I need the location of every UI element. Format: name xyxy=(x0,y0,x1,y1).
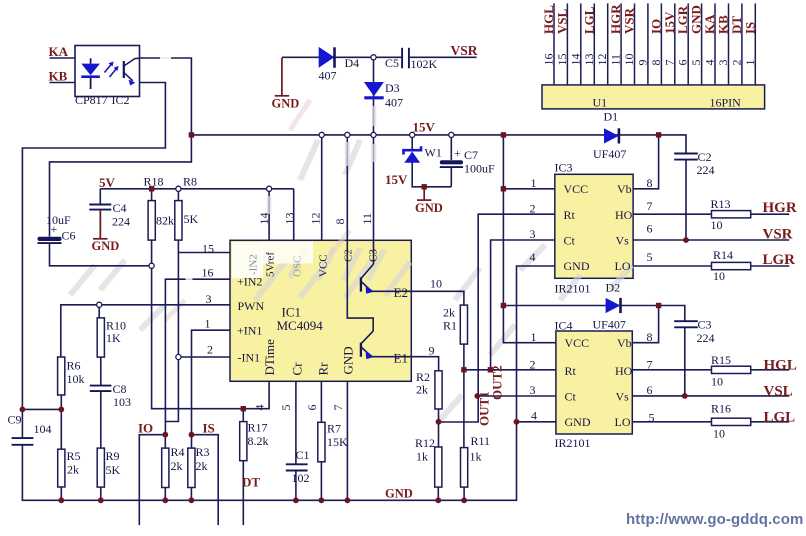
svg-text:Vs: Vs xyxy=(616,234,630,248)
svg-text:16: 16 xyxy=(542,54,556,66)
svg-text:UF407: UF407 xyxy=(593,147,626,161)
svg-text:102K: 102K xyxy=(411,57,438,71)
svg-text:3: 3 xyxy=(530,383,536,397)
svg-text:4: 4 xyxy=(703,60,717,66)
svg-text:13: 13 xyxy=(582,54,596,66)
svg-text:IS: IS xyxy=(742,22,757,34)
svg-text:IC2: IC2 xyxy=(112,93,130,107)
svg-text:Ct: Ct xyxy=(564,234,576,248)
svg-text:R4: R4 xyxy=(171,445,185,459)
svg-text:GND: GND xyxy=(415,201,443,215)
svg-text:2k: 2k xyxy=(196,459,208,473)
svg-text:D4: D4 xyxy=(345,56,360,70)
svg-text:Vb: Vb xyxy=(617,336,632,350)
svg-text:100uF: 100uF xyxy=(464,162,495,176)
svg-text:5: 5 xyxy=(279,405,293,411)
svg-text:2: 2 xyxy=(729,60,743,66)
svg-text:D2: D2 xyxy=(606,281,621,295)
svg-text:5K: 5K xyxy=(106,463,121,477)
svg-text:1: 1 xyxy=(531,330,537,344)
svg-text:C4: C4 xyxy=(113,201,127,215)
svg-text:VSR: VSR xyxy=(763,227,793,243)
svg-text:8.2k: 8.2k xyxy=(248,434,269,448)
svg-text:1k: 1k xyxy=(416,450,428,464)
svg-text:VSR: VSR xyxy=(451,43,478,58)
svg-text:HGL: HGL xyxy=(764,358,797,374)
svg-text:C2: C2 xyxy=(343,249,355,262)
svg-text:2k: 2k xyxy=(416,383,428,397)
svg-text:R3: R3 xyxy=(196,445,210,459)
svg-text:14: 14 xyxy=(257,213,271,225)
svg-text:5: 5 xyxy=(689,60,703,66)
svg-text:R7: R7 xyxy=(327,422,341,436)
svg-text:VSL: VSL xyxy=(554,8,569,34)
svg-text:1k: 1k xyxy=(470,450,482,464)
svg-text:+: + xyxy=(454,146,461,160)
svg-text:+IN2: +IN2 xyxy=(237,275,262,289)
svg-text:C3: C3 xyxy=(368,249,380,262)
svg-text:7: 7 xyxy=(662,60,676,66)
svg-text:6: 6 xyxy=(647,383,653,397)
svg-text:407: 407 xyxy=(385,96,403,110)
svg-text:2: 2 xyxy=(530,202,536,216)
svg-text:OUT2: OUT2 xyxy=(490,365,505,400)
svg-text:224: 224 xyxy=(697,331,715,345)
svg-text:HO: HO xyxy=(615,208,633,222)
svg-text:IS: IS xyxy=(203,421,215,436)
svg-text:+: + xyxy=(51,222,58,236)
svg-text:1: 1 xyxy=(531,176,537,190)
svg-text:R12: R12 xyxy=(415,436,435,450)
svg-text:8: 8 xyxy=(647,176,653,190)
svg-text:11: 11 xyxy=(360,213,374,225)
svg-text:IO: IO xyxy=(138,421,153,436)
svg-text:82k: 82k xyxy=(156,214,174,228)
svg-text:R17: R17 xyxy=(248,421,268,435)
svg-text:5V: 5V xyxy=(99,175,116,190)
svg-text:W1: W1 xyxy=(425,146,442,160)
svg-text:10: 10 xyxy=(711,218,723,232)
svg-text:GND: GND xyxy=(341,346,356,374)
svg-text:R16: R16 xyxy=(711,402,731,416)
svg-text:8: 8 xyxy=(649,60,663,66)
svg-text:5: 5 xyxy=(647,250,653,264)
svg-text:UF407: UF407 xyxy=(593,318,626,332)
svg-text:VCC: VCC xyxy=(564,182,589,196)
svg-text:D1: D1 xyxy=(604,110,619,124)
svg-text:8: 8 xyxy=(333,219,347,225)
svg-text:OSC: OSC xyxy=(292,256,304,277)
svg-text:R15: R15 xyxy=(711,353,731,367)
svg-text:C3: C3 xyxy=(698,318,712,332)
svg-text:12: 12 xyxy=(309,213,323,225)
svg-text:Ct: Ct xyxy=(565,390,577,404)
svg-text:R11: R11 xyxy=(471,434,491,448)
svg-text:10: 10 xyxy=(713,427,725,441)
svg-text:IR2101: IR2101 xyxy=(555,282,591,296)
svg-text:10k: 10k xyxy=(67,372,85,386)
svg-text:1: 1 xyxy=(743,60,757,66)
svg-text:VSL: VSL xyxy=(764,384,793,400)
svg-text:GND: GND xyxy=(564,259,590,273)
svg-text:VSR: VSR xyxy=(622,7,637,34)
svg-text:C5: C5 xyxy=(385,56,399,70)
svg-text:HGR: HGR xyxy=(763,200,797,216)
svg-text:10: 10 xyxy=(430,277,442,291)
svg-text:1: 1 xyxy=(205,317,211,331)
svg-text:R1: R1 xyxy=(443,319,457,333)
svg-text:5Vref: 5Vref xyxy=(265,252,277,277)
svg-text:224: 224 xyxy=(697,163,715,177)
svg-text:5K: 5K xyxy=(184,212,199,226)
svg-text:GND: GND xyxy=(385,487,413,501)
svg-text:7: 7 xyxy=(647,199,653,213)
svg-text:104: 104 xyxy=(34,422,52,436)
svg-text:+IN1: +IN1 xyxy=(237,324,262,338)
svg-text:2: 2 xyxy=(207,343,213,357)
svg-text:PWN: PWN xyxy=(238,299,265,313)
svg-text:407: 407 xyxy=(319,69,337,83)
svg-text:LGL: LGL xyxy=(581,6,596,34)
svg-text:DT: DT xyxy=(242,475,260,490)
svg-text:GND: GND xyxy=(92,239,120,253)
svg-text:15V: 15V xyxy=(413,120,436,135)
svg-text:C7: C7 xyxy=(464,148,478,162)
svg-text:U1: U1 xyxy=(593,96,608,110)
svg-text:R14: R14 xyxy=(713,248,733,262)
svg-text:4: 4 xyxy=(530,250,536,264)
svg-text:KA: KA xyxy=(49,44,69,59)
svg-text:6: 6 xyxy=(676,60,690,66)
svg-text:Vs: Vs xyxy=(616,390,630,404)
svg-text:Rt: Rt xyxy=(565,364,577,378)
svg-text:103: 103 xyxy=(113,395,131,409)
svg-text:3: 3 xyxy=(716,60,730,66)
svg-text:Rr: Rr xyxy=(316,362,331,376)
svg-text:E1: E1 xyxy=(394,351,408,366)
svg-text:12: 12 xyxy=(595,54,609,66)
svg-text:C6: C6 xyxy=(62,229,76,243)
svg-text:5: 5 xyxy=(649,411,655,425)
svg-text:VCC: VCC xyxy=(565,336,590,350)
svg-text:15V: 15V xyxy=(385,172,408,187)
svg-text:3: 3 xyxy=(206,292,212,306)
svg-text:R9: R9 xyxy=(106,449,120,463)
svg-text:14: 14 xyxy=(568,54,582,66)
svg-text:E2: E2 xyxy=(394,285,408,300)
svg-text:Cr: Cr xyxy=(290,362,305,376)
svg-text:VCC: VCC xyxy=(318,254,330,277)
svg-text:IC4: IC4 xyxy=(555,319,573,333)
svg-text:GND: GND xyxy=(565,415,591,429)
svg-text:13: 13 xyxy=(283,213,297,225)
svg-text:HO: HO xyxy=(615,364,633,378)
svg-text:R6: R6 xyxy=(67,359,81,373)
svg-text:DTime: DTime xyxy=(262,339,277,376)
svg-text:Rt: Rt xyxy=(564,208,576,222)
svg-text:KB: KB xyxy=(49,69,68,84)
svg-text:3: 3 xyxy=(530,227,536,241)
svg-text:-IN2: -IN2 xyxy=(248,254,260,275)
svg-text:11: 11 xyxy=(609,54,623,66)
svg-text:15K: 15K xyxy=(327,435,348,449)
svg-text:R5: R5 xyxy=(67,449,81,463)
svg-text:4: 4 xyxy=(253,405,267,411)
svg-text:D3: D3 xyxy=(385,81,400,95)
svg-text:LO: LO xyxy=(615,259,631,273)
svg-text:10: 10 xyxy=(622,54,636,66)
svg-text:10: 10 xyxy=(713,269,725,283)
svg-text:R8: R8 xyxy=(183,175,197,189)
svg-text:R18: R18 xyxy=(144,175,164,189)
svg-text:6: 6 xyxy=(305,405,319,411)
svg-text:C2: C2 xyxy=(698,150,712,164)
svg-text:C1: C1 xyxy=(296,448,310,462)
svg-text:1K: 1K xyxy=(106,331,121,345)
svg-text:C8: C8 xyxy=(113,382,127,396)
svg-text:2k: 2k xyxy=(67,463,79,477)
svg-text:LGL: LGL xyxy=(764,410,796,426)
svg-text:224: 224 xyxy=(112,215,130,229)
svg-text:15: 15 xyxy=(555,54,569,66)
svg-text:9: 9 xyxy=(635,60,649,66)
svg-text:MC4094: MC4094 xyxy=(277,318,324,333)
svg-text:8: 8 xyxy=(647,330,653,344)
svg-text:10: 10 xyxy=(711,375,723,389)
svg-text:LO: LO xyxy=(615,415,631,429)
svg-text:16: 16 xyxy=(202,266,214,280)
svg-text:LGR: LGR xyxy=(763,252,796,268)
svg-text:6: 6 xyxy=(647,222,653,236)
svg-text:GND: GND xyxy=(272,97,300,111)
svg-text:Vb: Vb xyxy=(617,182,632,196)
svg-text:102: 102 xyxy=(292,471,310,485)
svg-text:R13: R13 xyxy=(711,197,731,211)
svg-text:OUT1: OUT1 xyxy=(477,391,492,426)
svg-text:2: 2 xyxy=(530,358,536,372)
svg-text:IR2101: IR2101 xyxy=(555,436,591,450)
svg-text:CP817: CP817 xyxy=(75,93,108,107)
svg-text:7: 7 xyxy=(331,405,345,411)
svg-text:-IN1: -IN1 xyxy=(238,351,261,365)
svg-text:http://www.go-gddq.com: http://www.go-gddq.com xyxy=(626,511,803,528)
svg-text:16PIN: 16PIN xyxy=(710,96,742,110)
svg-text:9: 9 xyxy=(429,344,435,358)
svg-text:7: 7 xyxy=(647,358,653,372)
svg-text:IC3: IC3 xyxy=(555,161,573,175)
svg-text:2k: 2k xyxy=(443,306,455,320)
svg-text:2k: 2k xyxy=(171,459,183,473)
svg-text:C9: C9 xyxy=(8,413,22,427)
svg-text:15: 15 xyxy=(202,242,214,256)
svg-text:4: 4 xyxy=(531,409,537,423)
